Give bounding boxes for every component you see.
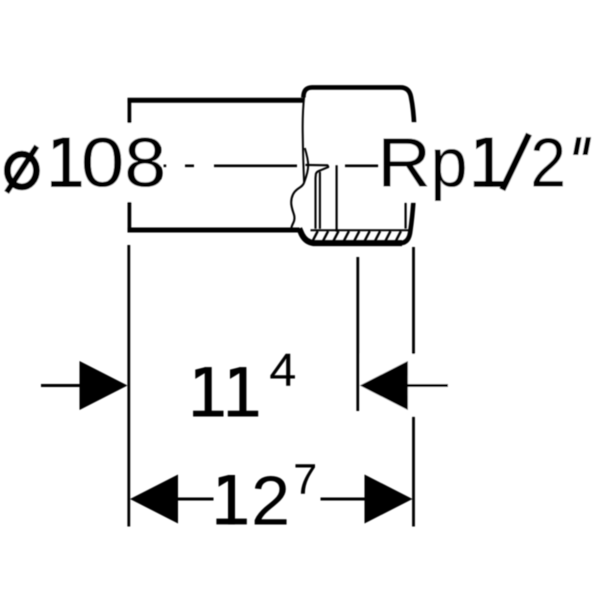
second digit — [228, 367, 258, 416]
fraction slash — [502, 134, 529, 190]
white halo of dim-1 right arrow — [361, 354, 453, 417]
freehand break squiggle — [291, 183, 304, 230]
dart / bead section at centreline — [305, 165, 328, 229]
dim-2 right arrowhead — [365, 475, 413, 524]
extension lines — [127, 245, 130, 527]
white halo of label Rp1/2 — [379, 123, 600, 203]
label ø108 : diameter symbol drawn manually — [7, 146, 37, 192]
fitting body bottom thick line — [299, 228, 402, 243]
dim-1 left arrowhead — [80, 361, 128, 410]
fitting left edge thin line with sliver bulge — [303, 95, 305, 183]
middle extension line (continuous) — [356, 257, 359, 411]
svg-text:R: R — [377, 124, 431, 202]
centreline dash-dot — [164, 165, 379, 168]
pipe left end vertical (masked mid-height by label halo) — [128, 98, 132, 232]
dim-1 right shaft — [406, 384, 448, 387]
thread band top line — [311, 229, 411, 231]
dimension 12.7 — [176, 498, 366, 501]
svg-text:0: 0 — [81, 123, 124, 201]
digit 1 of Rp1/2 — [474, 138, 504, 187]
pipe bottom line — [128, 228, 300, 233]
pipe top line — [128, 98, 305, 103]
dim-2 right shaft — [321, 498, 367, 501]
dim-1 right arrowhead — [360, 361, 408, 410]
inner bore line at right (masked above by label halo) — [405, 168, 407, 229]
dim-2 left shaft — [176, 498, 214, 501]
svg-text:4: 4 — [269, 345, 296, 396]
thread hatch strokes — [312, 231, 411, 242]
inner step line (right of dart) — [319, 172, 321, 229]
svg-text:p: p — [431, 124, 468, 202]
dim text 11 : first digit — [193, 367, 223, 416]
dim-1 left shaft — [41, 384, 83, 387]
svg-text:8: 8 — [124, 124, 166, 202]
dim text 12 : digit 1 — [216, 475, 246, 524]
fitting body right edge (masked mid-height by label halo) — [401, 122, 415, 243]
inch double prime — [573, 137, 582, 155]
svg-text:2: 2 — [251, 461, 290, 539]
dim-2 left arrowhead — [130, 475, 178, 524]
svg-text:2: 2 — [530, 124, 566, 202]
white halo of label ø108 — [0, 123, 161, 202]
thread end line — [336, 165, 338, 231]
svg-text:7: 7 — [293, 456, 317, 504]
fitting body top outline with corners — [303, 87, 414, 126]
digit 1 of ø108 — [51, 138, 81, 187]
dimension 11.4 — [41, 384, 448, 387]
